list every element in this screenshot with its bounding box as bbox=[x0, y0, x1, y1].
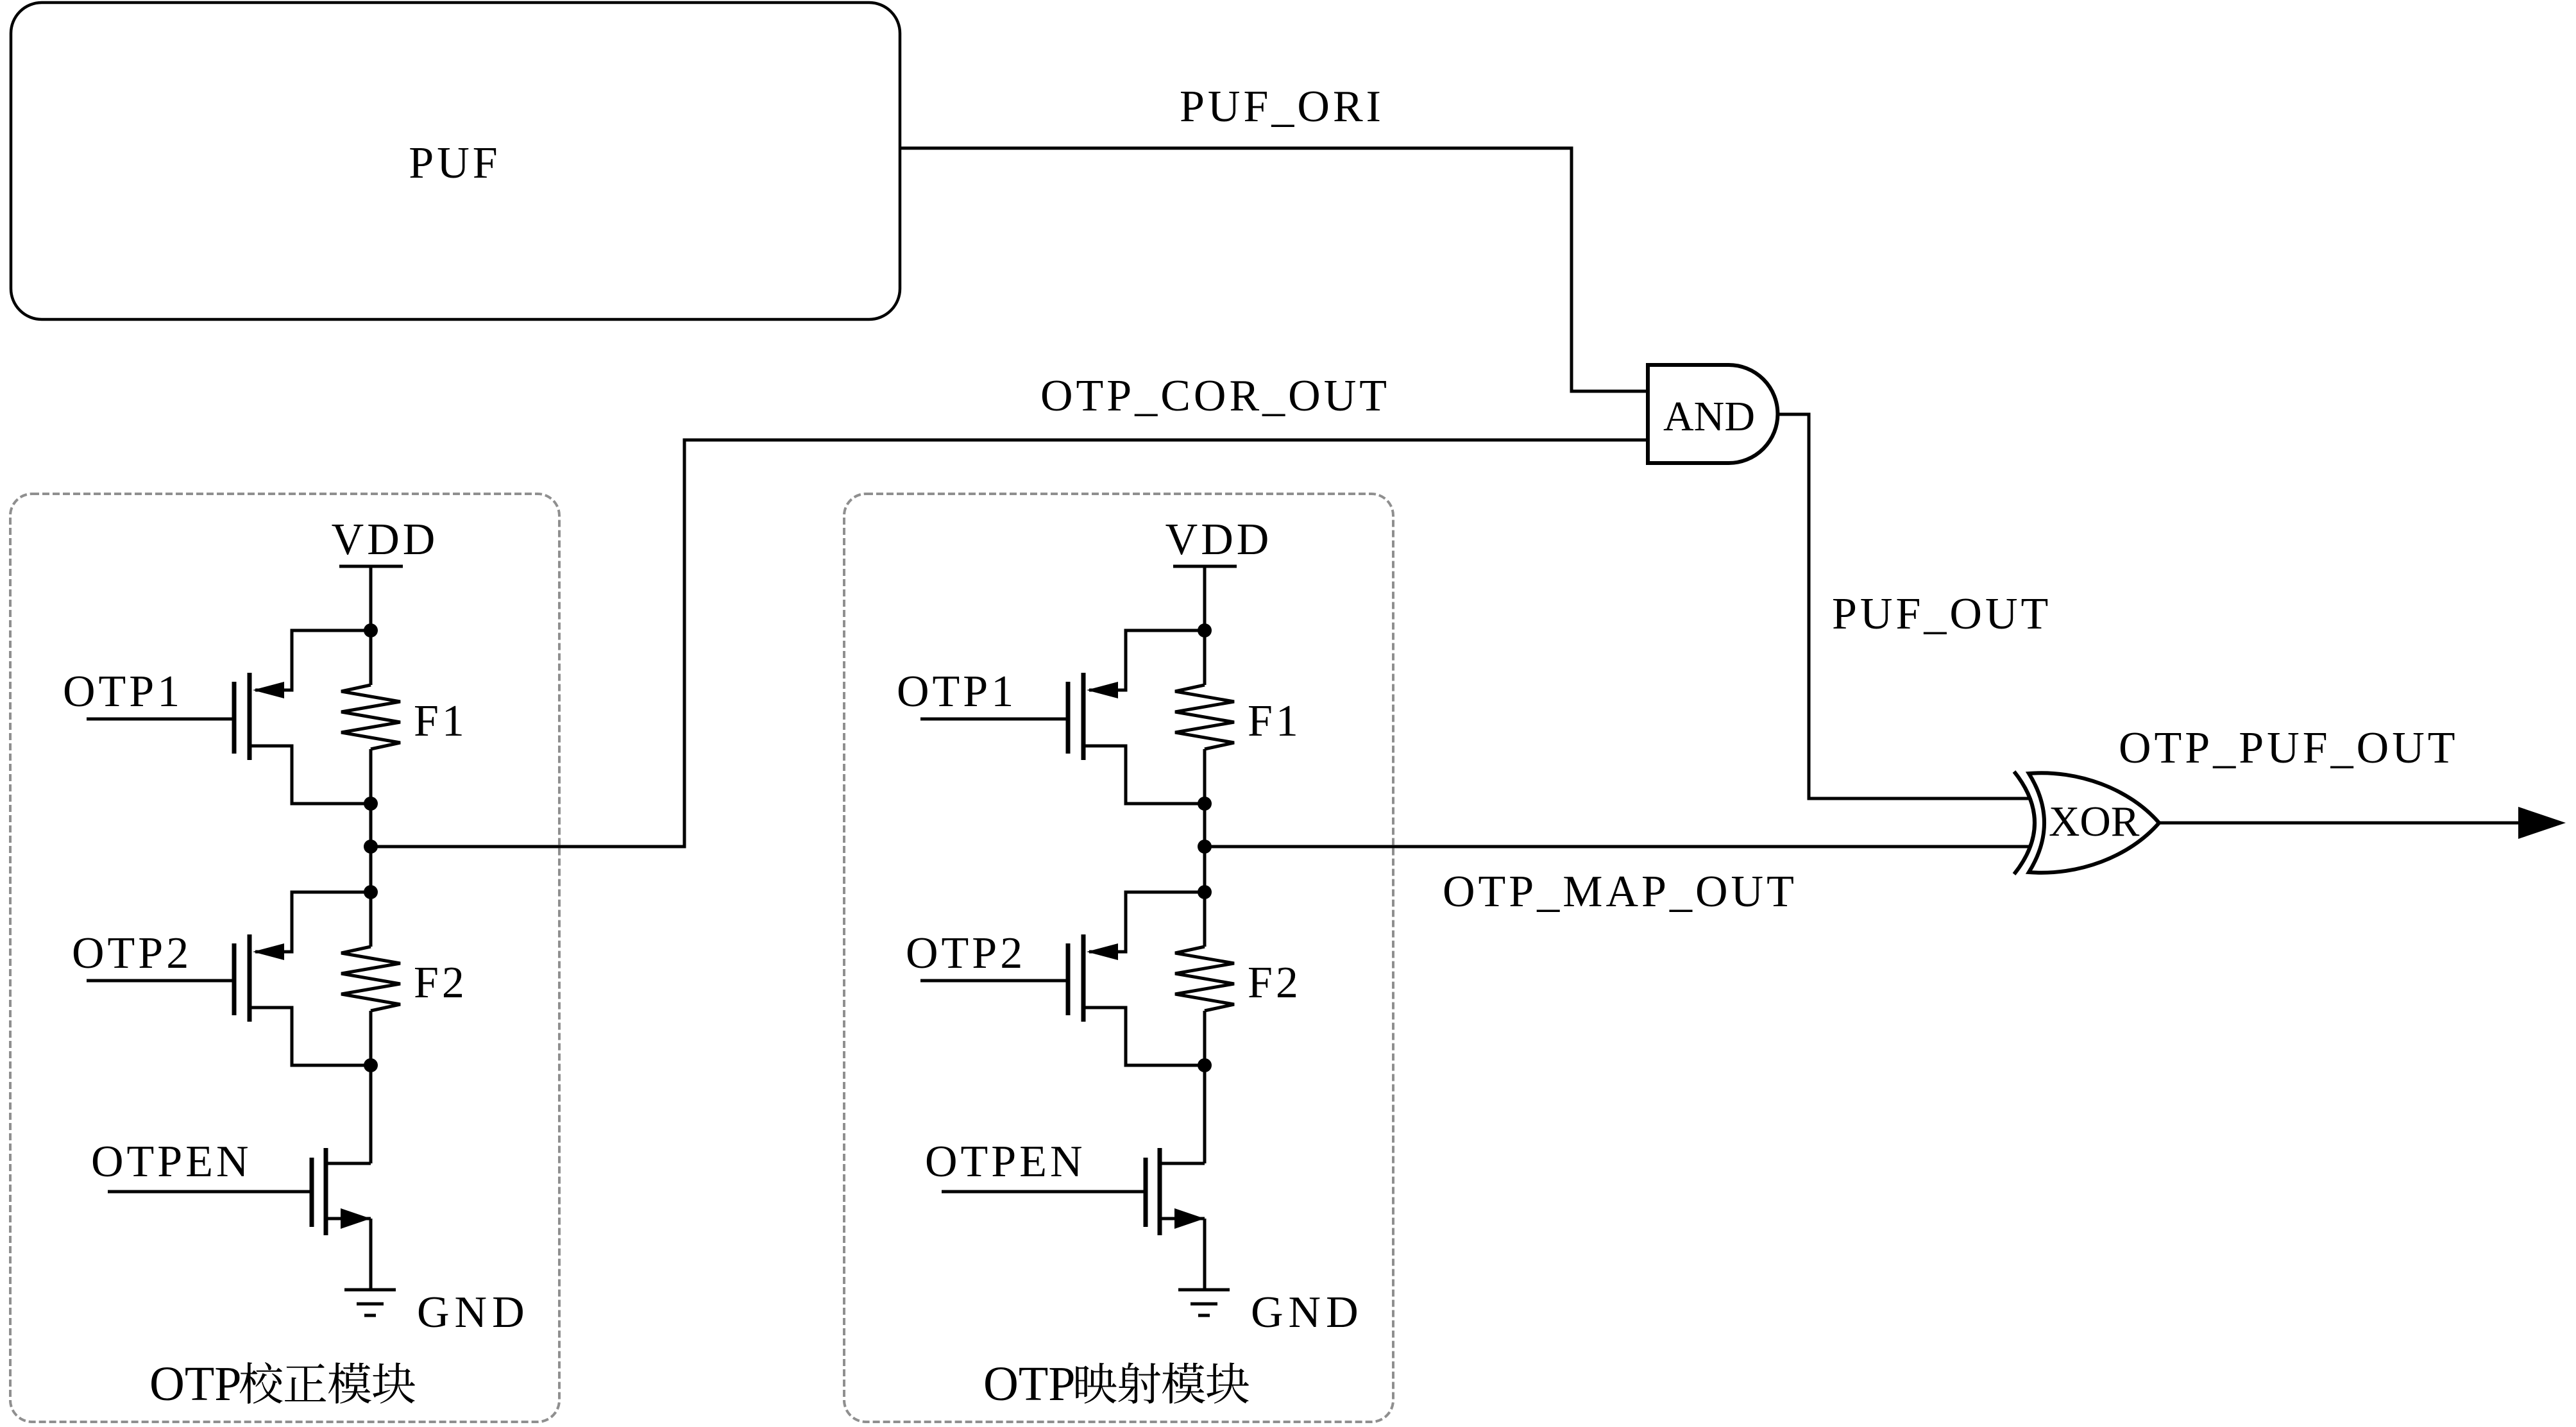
wire OTP_MAP_OUT bbox=[1205, 845, 2029, 849]
junction dot PMOS2 top bbox=[364, 885, 378, 899]
VDD bar bbox=[1173, 565, 1237, 568]
wire VDD to node bbox=[369, 566, 373, 630]
svg-text:OTP_MAP_OUT: OTP_MAP_OUT bbox=[1443, 867, 1797, 916]
gate wire OTPEN bbox=[108, 1190, 310, 1194]
ground symbol bbox=[344, 1288, 396, 1292]
svg-text:OTP: OTP bbox=[983, 1357, 1076, 1411]
svg-text:OTP2: OTP2 bbox=[72, 929, 192, 978]
wire XOR output bbox=[2159, 822, 2518, 825]
svg-text:OTP1: OTP1 bbox=[63, 667, 183, 716]
node junction dot (output) bbox=[364, 840, 378, 854]
svg-text:PUF_OUT: PUF_OUT bbox=[1832, 589, 2051, 639]
svg-text:GND: GND bbox=[1251, 1288, 1364, 1337]
drain wire bbox=[1085, 746, 1205, 804]
fuse F2 bbox=[1203, 892, 1207, 947]
svg-text:PUF: PUF bbox=[409, 139, 500, 188]
svg-text:F2: F2 bbox=[414, 958, 468, 1008]
junction dot top bbox=[1198, 623, 1212, 638]
svg-text:OTP2: OTP2 bbox=[906, 929, 1026, 978]
drain wire bbox=[251, 1008, 371, 1065]
svg-text:VDD: VDD bbox=[1165, 515, 1273, 564]
svg-text:OTPEN: OTPEN bbox=[925, 1137, 1086, 1186]
NMOS source wire with arrow bbox=[1162, 1217, 1205, 1220]
svg-text:XOR: XOR bbox=[2049, 798, 2140, 845]
PUF block bbox=[11, 3, 900, 319]
wire PMOS2 bottom to NMOS drain bbox=[369, 1065, 373, 1163]
transistor PMOS OTP2 OTP mapping module bbox=[1089, 892, 1205, 952]
node junction dot (output) bbox=[1198, 840, 1212, 854]
svg-text:VDD: VDD bbox=[332, 515, 439, 564]
wire PMOS2 bottom to NMOS drain bbox=[1203, 1065, 1207, 1163]
fuse F1 bbox=[1203, 630, 1207, 685]
svg-text:PUF_ORI: PUF_ORI bbox=[1180, 82, 1384, 131]
transistor PMOS OTP2 OTP correction module bbox=[255, 892, 371, 952]
svg-text:F1: F1 bbox=[1248, 697, 1301, 746]
drain wire bbox=[251, 746, 371, 804]
svg-text:OTP_PUF_OUT: OTP_PUF_OUT bbox=[2119, 723, 2459, 773]
svg-text:F2: F2 bbox=[1248, 958, 1301, 1008]
junction dot bbox=[1198, 1058, 1212, 1072]
dashed box OTP correction module bbox=[10, 494, 559, 1422]
transistor PMOS OTP1 OTP correction module bbox=[255, 630, 371, 690]
ground symbol bbox=[1178, 1288, 1230, 1292]
svg-text:F1: F1 bbox=[414, 697, 468, 746]
fuse F1 bbox=[369, 630, 373, 685]
drain wire bbox=[1085, 1008, 1205, 1065]
junction dot top bbox=[364, 623, 378, 638]
svg-text:OTP1: OTP1 bbox=[897, 667, 1017, 716]
wire AND output PUF_OUT bbox=[1777, 414, 2029, 798]
svg-text:OTPEN: OTPEN bbox=[91, 1137, 252, 1186]
VDD bar bbox=[339, 565, 403, 568]
wire OTP_COR_OUT bbox=[371, 440, 1648, 847]
wire VDD to node bbox=[1203, 566, 1207, 630]
svg-text:OTP: OTP bbox=[149, 1357, 242, 1411]
svg-text:AND: AND bbox=[1663, 393, 1755, 440]
dashed box OTP mapping module bbox=[844, 494, 1393, 1422]
svg-text:OTP_COR_OUT: OTP_COR_OUT bbox=[1040, 371, 1390, 421]
junction dot PMOS2 top bbox=[1198, 885, 1212, 899]
gate wire OTP2 bbox=[920, 979, 1066, 983]
gate wire OTP1 bbox=[920, 718, 1066, 721]
wire between PMOS1 bottom and node, node and PMOS2 top bbox=[369, 804, 373, 892]
XOR gate U2 bbox=[2014, 772, 2035, 874]
transistor NMOS OTPEN OTP correction module bbox=[328, 1162, 371, 1165]
wire between PMOS1 bottom and node, node and PMOS2 top bbox=[1203, 804, 1207, 892]
wire PUF_ORI bbox=[900, 148, 1646, 391]
AND gate U1 bbox=[1648, 365, 1777, 463]
junction dot bbox=[364, 797, 378, 811]
NMOS source wire with arrow bbox=[328, 1217, 371, 1220]
output arrow bbox=[2518, 807, 2566, 839]
gate wire OTP2 bbox=[87, 979, 232, 983]
gate wire OTPEN bbox=[942, 1190, 1144, 1194]
gate wire OTP1 bbox=[87, 718, 232, 721]
transistor NMOS OTPEN OTP mapping module bbox=[1162, 1162, 1205, 1165]
junction dot bbox=[364, 1058, 378, 1072]
junction dot bbox=[1198, 797, 1212, 811]
fuse F2 bbox=[369, 892, 373, 947]
svg-text:GND: GND bbox=[417, 1288, 530, 1337]
transistor PMOS OTP1 OTP mapping module bbox=[1089, 630, 1205, 690]
